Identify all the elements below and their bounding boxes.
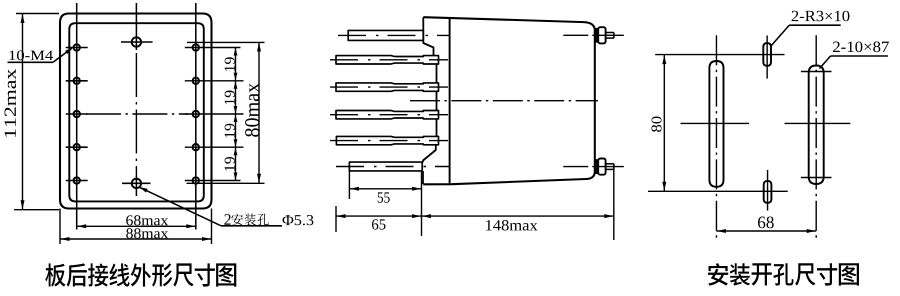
top small slot R3x10 — [763, 43, 771, 66]
bottom extension line — [648, 190, 788, 192]
extension line row 3 — [185, 113, 244, 115]
terminal pin 2 centerline — [330, 59, 448, 61]
title2 char 寸 — [817, 263, 837, 285]
extension line row 4 — [185, 146, 244, 148]
terminal pin 1 outline — [348, 30, 423, 40]
top extension line — [655, 54, 784, 56]
terminal pin 5 centerline — [330, 140, 448, 142]
terminal pin 4 outline — [336, 111, 439, 119]
dimension 65 — [335, 206, 337, 232]
top small slot centerline — [766, 36, 768, 79]
case top edge — [423, 17, 595, 30]
dimension 148max — [613, 167, 615, 240]
title1 char 尺 — [173, 263, 193, 286]
terminal block edge seg3 — [436, 91, 438, 110]
right screw column line — [195, 3, 197, 230]
top mounting stud — [595, 28, 598, 43]
terminal pin 1 centerline — [338, 34, 449, 36]
bottom mounting stud — [595, 159, 598, 174]
label hanzi zhuang — [245, 213, 256, 225]
extension top hole row — [187, 41, 265, 43]
right slot vertical centerline — [815, 35, 817, 240]
case right edge — [594, 31, 596, 172]
case horizontal centerline — [86, 113, 188, 115]
bottom mounting hole — [135, 176, 137, 196]
terminal screw L4 crosshair — [66, 146, 88, 148]
dimension 55 — [348, 171, 350, 199]
title1 char 板 — [45, 263, 65, 286]
title1 char 后 — [67, 263, 87, 286]
right slot top tangent tick — [801, 71, 832, 73]
title2 char 装 — [730, 263, 750, 285]
terminal block edge bottom — [423, 145, 436, 162]
extension line row 1 — [185, 47, 241, 49]
extension bottom hole row — [187, 182, 265, 184]
terminal screw L1 crosshair — [66, 47, 88, 49]
left slot vertical centerline — [715, 35, 717, 240]
extension line row 2 — [185, 80, 244, 82]
terminal screw L5 crosshair — [66, 180, 88, 182]
right slot horizontal centerline — [785, 122, 851, 124]
label 2-10x87 — [833, 42, 889, 53]
terminal screw R4 — [193, 144, 199, 150]
dimension 112max — [16, 13, 59, 15]
terminal screw L4 — [74, 144, 80, 150]
terminal pin 4 centerline — [330, 114, 448, 116]
terminal pin 3 outline — [336, 83, 439, 91]
title1 char 接 — [88, 263, 108, 286]
left slot horizontal centerline — [681, 122, 750, 124]
top mounting hole — [135, 3, 137, 50]
title1 char 外 — [131, 263, 151, 286]
dimension 68max — [77, 225, 196, 227]
terminal screw L2 — [74, 78, 80, 84]
dimension 68 — [716, 230, 816, 232]
relay case outer outline (rear view) — [60, 14, 212, 209]
terminal block lower edge — [422, 171, 424, 184]
title2 char 开 — [752, 263, 772, 285]
terminal pin 2 outline — [336, 56, 439, 64]
label hanzi an — [231, 214, 243, 226]
title2 char 安 — [708, 263, 728, 285]
extension line row 5 — [185, 180, 241, 182]
label hanzi kong — [258, 214, 269, 226]
terminal block edge seg2 — [436, 64, 438, 83]
title1 char 图 — [216, 263, 236, 286]
terminal screw R5 — [193, 177, 199, 183]
title2 char 尺 — [795, 263, 815, 285]
terminal block edge seg4 — [436, 119, 438, 136]
terminal pin 6 outline — [349, 162, 422, 171]
terminal screw L2 crosshair — [66, 80, 88, 82]
bottom small slot centerline — [767, 170, 769, 211]
terminal block edge top — [423, 17, 433, 55]
terminal pin 5 outline — [336, 136, 438, 144]
dimension 80max — [258, 42, 260, 183]
title2 char 孔 — [773, 263, 793, 285]
case vertical centerline — [135, 53, 137, 176]
label 2-R3x10 — [792, 11, 850, 22]
dimension 19 (4) — [235, 147, 237, 180]
label 10-M4 — [9, 50, 52, 60]
dimension 19 (3) — [235, 114, 237, 147]
dimension 19 (2) — [235, 81, 237, 114]
relay case inner outline — [69, 23, 204, 201]
dimension 19 (1) — [235, 48, 237, 81]
title1 char 线 — [109, 263, 129, 286]
right mounting slot 10x87 — [809, 66, 824, 185]
case bottom edge — [423, 172, 595, 185]
bottom small slot R3x10 — [764, 181, 772, 203]
leader 2 mounting holes — [139, 187, 221, 226]
title2 char 图 — [839, 263, 859, 285]
terminal screw R3 — [193, 111, 199, 117]
left mounting slot 10x87 — [709, 61, 723, 187]
terminal screw L3 — [74, 111, 80, 117]
left screw column line — [76, 3, 78, 230]
terminal screw R1 — [193, 44, 199, 50]
terminal pin 6 centerline — [336, 166, 449, 168]
dimension 88max — [59, 209, 61, 245]
terminal screw L5 — [74, 177, 80, 183]
right slot bottom tangent tick — [801, 177, 832, 179]
title1 char 形 — [152, 263, 172, 286]
title1 char 寸 — [195, 263, 215, 286]
case centerline — [410, 100, 598, 102]
dimension 80 — [663, 55, 665, 192]
case front face — [449, 18, 451, 184]
terminal screw L1 — [74, 44, 80, 50]
terminal pin 3 centerline — [330, 86, 448, 88]
terminal screw R2 — [193, 78, 199, 84]
terminal screw L3 crosshair — [66, 113, 88, 115]
